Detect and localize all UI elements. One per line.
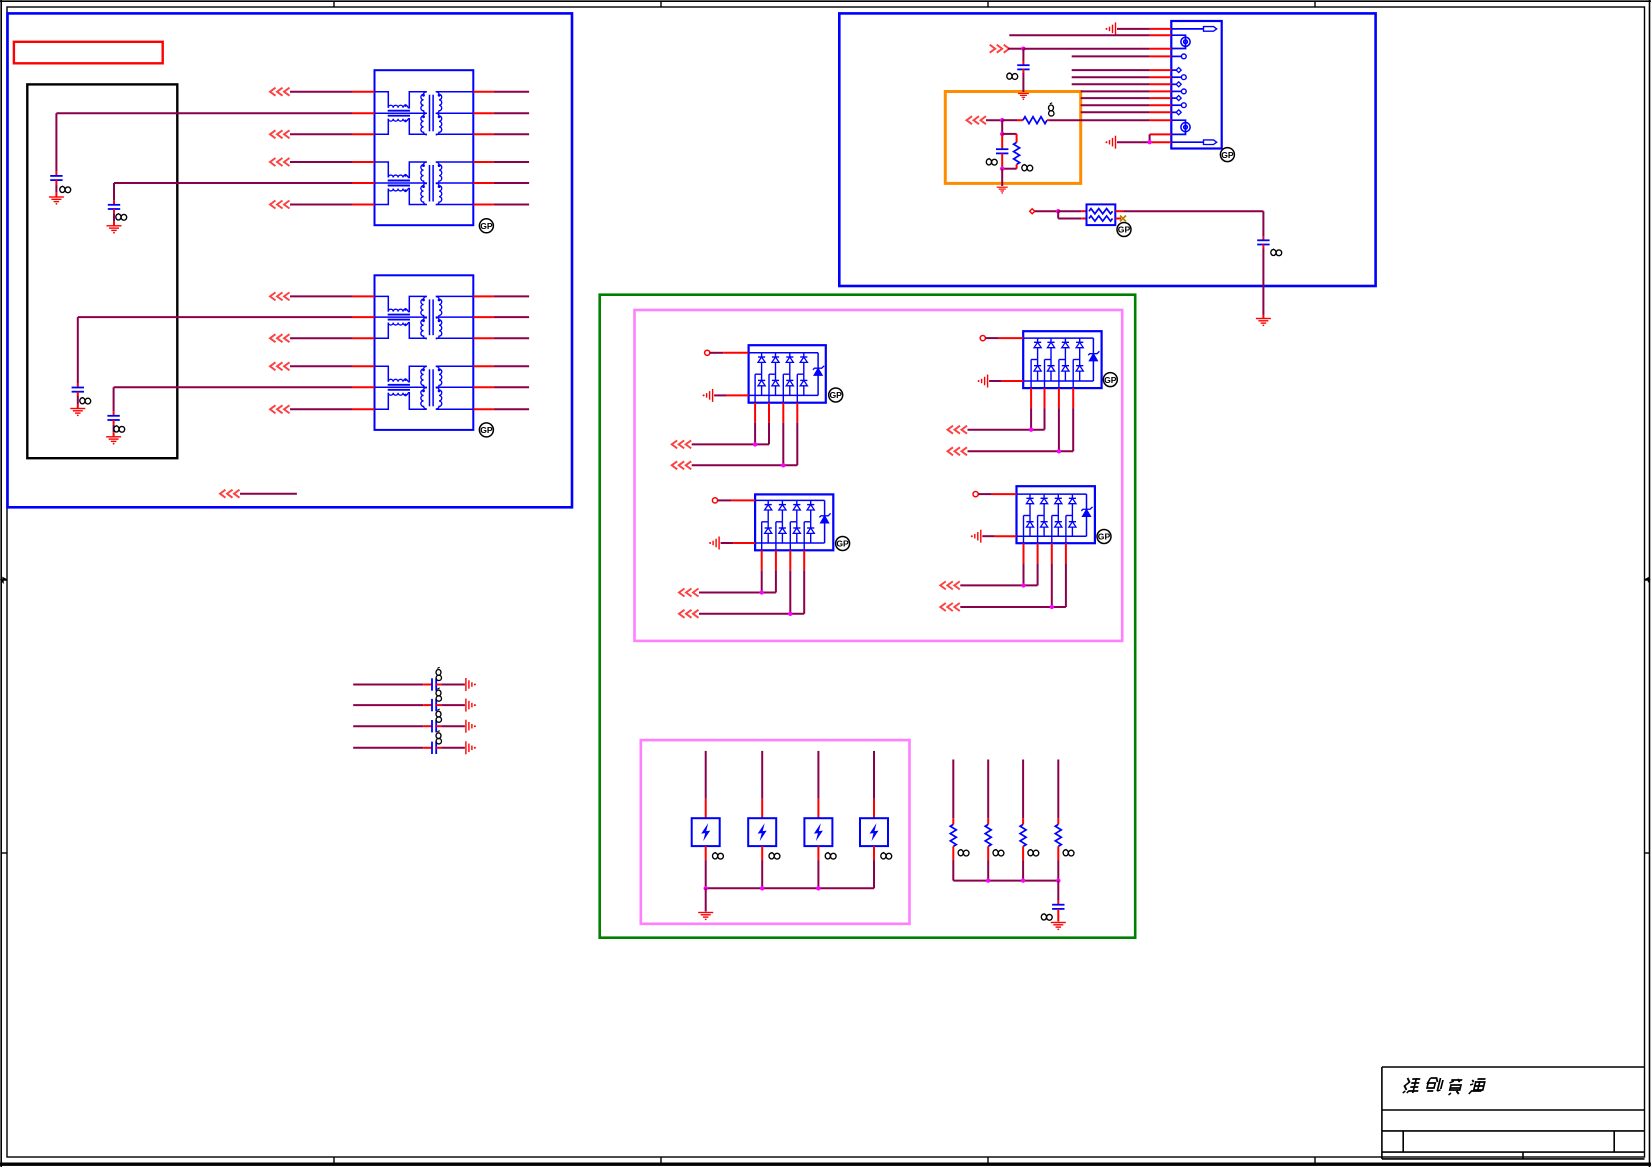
capacitor C7 + wire to ground: [1257, 211, 1269, 318]
label R1: [1049, 103, 1055, 116]
RN1 outputs (wire + no-connect X): [1115, 211, 1263, 221]
input wires to resistor pack: [1030, 209, 1087, 219]
label RG4: [1063, 849, 1074, 856]
wire to J1 data pin y=84.3: [1072, 83, 1172, 85]
title block: [1382, 1067, 1645, 1159]
port stub (bottom of magnetics box): [220, 490, 297, 498]
chassis ground row 2: [466, 699, 476, 712]
resistor RG4: [1055, 760, 1061, 881]
GP stamp T1: [479, 219, 493, 233]
svg-text:GP: GP: [1221, 150, 1234, 160]
company name text: [1403, 1078, 1486, 1095]
GP stamp D3: [836, 537, 850, 551]
GP stamp D2: [1103, 373, 1117, 387]
svg-text:GP: GP: [836, 539, 849, 549]
net-class box (magnetics section): [8, 13, 573, 507]
surge arrester SA3: [804, 751, 832, 888]
resistor pack RN1: [1087, 204, 1116, 225]
GP stamp D4: [1097, 530, 1111, 544]
chassis ground row 1: [466, 678, 476, 691]
label RG2: [993, 849, 1004, 856]
label C1: [60, 186, 71, 193]
svg-text:GP: GP: [1118, 225, 1131, 235]
svg-text:GP: GP: [1098, 532, 1111, 542]
coupling capacitor row 2: [353, 699, 465, 711]
label C8: [1041, 913, 1052, 920]
wires transformer T1A: [56, 88, 529, 139]
port >>> + wire to J1 pin3: [990, 45, 1172, 53]
label cap row 2: [436, 688, 441, 701]
transformer T1A: [375, 92, 474, 135]
wire to J1 data pin y=91.4: [1081, 90, 1172, 92]
capacitor C5 to ground: [1017, 49, 1029, 92]
wire to J1 data pin y=105.2: [1081, 104, 1172, 106]
wire resistor output to J1: [1050, 119, 1172, 121]
ground below C7: [1256, 319, 1271, 327]
resistor RG2: [985, 760, 991, 881]
label C7: [1271, 249, 1282, 256]
wires transformer T2B: [114, 362, 529, 413]
ESD diode array D1: [749, 345, 826, 403]
resistor R1 (series): [1023, 117, 1050, 124]
wire to J1 pin2: [1009, 34, 1171, 36]
wire to J1 data pin y=112.3: [1081, 111, 1172, 113]
capacitor C8 (resistor group): [1052, 881, 1064, 922]
label RG1: [958, 849, 969, 856]
label SA1: [713, 852, 724, 859]
label box (red, empty): [14, 42, 163, 64]
label SA2: [769, 852, 780, 859]
label cap row 4: [436, 731, 441, 744]
label SA3: [825, 852, 836, 859]
label SA4: [881, 852, 892, 859]
surge arrester SA4: [860, 751, 888, 888]
ground below termination box: [997, 187, 1008, 194]
coupling capacitor row 4: [353, 742, 465, 754]
capacitor C6 (termination): [996, 134, 1008, 169]
diode-array group box (pink): [635, 310, 1123, 641]
chassis ground + wire to J1 pin1 (shield): [1106, 22, 1172, 35]
svg-text:GP: GP: [829, 390, 842, 400]
GP stamp J1: [1220, 148, 1234, 162]
ground below surge arresters: [698, 913, 713, 921]
wire to J1 data pin y=70.1: [1072, 69, 1172, 71]
transformer T1B: [375, 162, 474, 205]
chassis ground + wires to J1 bottom shield/LED pins: [1106, 134, 1172, 148]
protection section box (green): [600, 295, 1135, 938]
GP stamp D1: [829, 388, 843, 402]
chassis ground row 4: [466, 741, 476, 754]
termination box (orange): [945, 92, 1080, 184]
wires D2: [948, 336, 1074, 456]
chassis ground row 3: [466, 720, 476, 733]
wires transformer T1B: [114, 158, 529, 209]
port <<< + wire into termination: [967, 116, 1024, 124]
label C3: [80, 397, 91, 404]
label R2: [1022, 164, 1033, 171]
svg-text:GP: GP: [480, 425, 493, 435]
ESD diode array D3: [755, 494, 833, 550]
wires D4: [940, 492, 1066, 612]
capacitor C1 (bank): [49, 113, 64, 205]
GP stamp T2: [479, 423, 493, 437]
ground below C5: [1018, 94, 1029, 100]
RJ45 jack J1: [1171, 21, 1221, 149]
ESD diode array D4: [1017, 486, 1095, 543]
transformer block T1 outline: [375, 70, 474, 225]
label C5: [1007, 73, 1018, 80]
surge-arrester group box (pink): [641, 740, 910, 924]
ESD diode array D2: [1023, 331, 1101, 388]
capacitor C4 (bank): [106, 387, 121, 444]
surge arrester SA1: [692, 751, 720, 888]
resistor group common bus: [953, 878, 1060, 882]
wire to J1 data pin y=77.2: [1072, 76, 1172, 78]
transformer T2B: [375, 366, 474, 409]
wires transformer T2A: [78, 292, 529, 342]
label RG3: [1028, 849, 1039, 856]
capacitor C2 (bank): [107, 183, 122, 234]
label C6: [986, 158, 997, 165]
wires D3: [679, 498, 804, 618]
capacitor C3 (bank): [70, 317, 85, 416]
transformer block T2 outline: [375, 275, 474, 430]
ground below C8: [1051, 923, 1066, 931]
resistor RG1: [950, 760, 956, 881]
GP stamp RN1: [1117, 223, 1131, 237]
transformer T2A: [375, 296, 474, 338]
label C2: [116, 213, 127, 220]
svg-text:GP: GP: [480, 221, 493, 231]
wire junction down: [1000, 120, 1004, 136]
surge arrester common bus: [704, 886, 875, 911]
wire to J1 data pin y=56.4: [1072, 55, 1172, 57]
coupling capacitor row 3: [353, 720, 465, 732]
capacitor bank box (black): [27, 84, 177, 458]
label C4: [114, 425, 125, 432]
junction + wire to ground: [1000, 167, 1004, 187]
net-class box (RJ45 section): [839, 13, 1375, 286]
wire to J1 data pin y=98.1: [1081, 97, 1172, 99]
resistor RG3: [1020, 760, 1026, 881]
wires D1: [672, 350, 798, 469]
coupling capacitor row 1: [353, 678, 465, 690]
label cap row 1: [436, 667, 441, 680]
label cap row 3: [436, 709, 441, 722]
surge arrester SA2: [748, 751, 776, 888]
svg-text:GP: GP: [1104, 375, 1117, 385]
resistor R2 (parallel): [1002, 134, 1019, 169]
